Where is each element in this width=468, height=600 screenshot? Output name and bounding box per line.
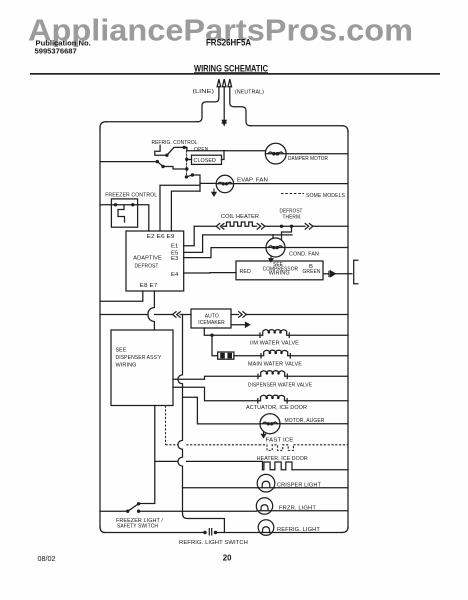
svg-text:CRISPER LIGHT: CRISPER LIGHT (277, 483, 321, 489)
auto icemaker box (191, 309, 231, 328)
svg-text:DEFROST: DEFROST (135, 263, 159, 269)
damper motor (265, 143, 286, 164)
actuator ice door solenoid (261, 395, 285, 401)
I/M water valve rung (204, 328, 348, 337)
svg-text:MOTOR, AUGER: MOTOR, AUGER (285, 418, 325, 424)
svg-text:WIRING: WIRING (269, 271, 290, 277)
wire E1 to coil heater (184, 226, 195, 246)
wire E4 to compressor RED (184, 272, 236, 274)
fast ice heater element (dashed) (259, 445, 293, 451)
svg-text:E2 E6 E9: E2 E6 E9 (147, 234, 175, 240)
vertical feeder V3 from icemaker rung down (178, 315, 224, 533)
svg-text:WIRING SCHEMATIC: WIRING SCHEMATIC (194, 64, 269, 74)
connector chevrons icemaker left (173, 312, 181, 318)
see compressor wiring box (236, 261, 323, 280)
svg-text:THERM.: THERM. (283, 215, 302, 221)
thermal fuse (218, 352, 234, 359)
wire damper motor to right rail (286, 153, 348, 155)
main border bottom edge right of light switch (216, 532, 343, 534)
defrost thermostat tail (282, 226, 292, 239)
dispenser water valve solenoid (261, 371, 285, 377)
wire E8 to left rail (100, 291, 143, 301)
refrig control mechanical linkage (dashed) (186, 147, 188, 177)
svg-text:5995376687: 5995376687 (35, 46, 77, 55)
svg-text:SAFETY SWITCH: SAFETY SWITCH (117, 524, 158, 530)
wire OPEN contact to damper motor (184, 147, 265, 150)
switch blade to evap contact (186, 175, 192, 177)
svg-text:AUTO: AUTO (205, 313, 219, 319)
motor auger rung (183, 397, 349, 424)
svg-text:20: 20 (223, 554, 232, 563)
svg-text:SOME MODELS: SOME MODELS (306, 193, 345, 199)
actuator ice door rung (173, 387, 348, 403)
svg-text:REFRIG. LIGHT SWITCH: REFRIG. LIGHT SWITCH (179, 540, 248, 546)
frzr light lamp (256, 498, 348, 514)
see dispenser assy wiring box (111, 330, 173, 406)
ground arrow cond fan (269, 257, 273, 262)
adaptive defrost control box (126, 231, 184, 291)
evap fan motor (200, 175, 348, 192)
svg-text:(LINE): (LINE) (193, 89, 215, 95)
svg-text:E3: E3 (171, 256, 179, 262)
main border top-right corner (342, 126, 348, 132)
svg-text:FREEZER CONTROL: FREEZER CONTROL (105, 193, 158, 199)
wire rail to freezer control (100, 204, 116, 206)
wire to frzr light (139, 510, 257, 512)
svg-text:ACTUATOR, ICE DOOR: ACTUATOR, ICE DOOR (246, 405, 307, 411)
svg-text:08/02: 08/02 (38, 554, 56, 563)
heater ice door rung (155, 461, 348, 469)
wire lower pole contact (163, 167, 187, 170)
wire freezer control to E2 (133, 205, 149, 231)
junction dots refrig control (156, 146, 194, 179)
svg-text:COIL HEATER: COIL HEATER (221, 214, 259, 220)
wire E9 feed (171, 191, 200, 231)
crisper light lamp (257, 474, 275, 492)
svg-text:WIRING: WIRING (116, 363, 137, 369)
crisper light rung (183, 487, 349, 489)
some models dashed note (281, 193, 304, 195)
wire stub to cond fan top (272, 235, 274, 238)
svg-text:MAIN WATER VALVE: MAIN WATER VALVE (248, 362, 302, 368)
refrig control switch blade lower pole (157, 162, 163, 167)
freezer control box (111, 199, 137, 227)
CLOSED label box (192, 155, 222, 164)
wire rung to refrig control (100, 161, 157, 163)
svg-text:RED: RED (240, 269, 252, 275)
main border left rail (99, 128, 101, 527)
svg-text:ADAPTIVE: ADAPTIVE (133, 255, 162, 261)
fast ice heater dashed feed from dispenser box (166, 406, 349, 451)
ground arrow evap fan (212, 189, 216, 197)
refrig light lamp (258, 520, 274, 536)
wire thermostat to right rail (313, 225, 348, 227)
svg-text:DAMPER MOTOR: DAMPER MOTOR (288, 156, 328, 162)
svg-text:FRS26HF5A: FRS26HF5A (206, 38, 252, 48)
wire E5 to defrost thermostat (184, 235, 292, 253)
svg-text:DISPENSER ASS'Y: DISPENSER ASS'Y (116, 355, 162, 361)
wire freezer control contacts (116, 204, 133, 206)
I/M water valve solenoid (263, 330, 287, 336)
svg-text:COND. FAN: COND. FAN (289, 251, 319, 257)
power plug right prong (NEUTRAL) (230, 87, 251, 126)
condenser fan motor (266, 238, 348, 257)
power plug left prong (LINE) (198, 87, 219, 122)
wire icemaker to right rail with chevrons (231, 314, 239, 316)
wire E3 to cond fan (184, 248, 266, 258)
coil heater rung (194, 222, 348, 239)
svg-text:SEE: SEE (116, 348, 127, 354)
main border bottom edge left of light switch (105, 532, 205, 534)
freezer light safety switch rung (100, 504, 256, 511)
wire GREEN output with connector (323, 271, 353, 277)
wire E7 down with hop over icemaker rung (148, 291, 154, 330)
svg-text:I/M WATER VALVE: I/M WATER VALVE (250, 340, 299, 346)
main water valve solenoid (264, 350, 288, 356)
dispenser water valve rung (173, 374, 348, 379)
main border top edge left of plug (106, 121, 198, 123)
svg-text:(NEUTRAL): (NEUTRAL) (235, 90, 264, 96)
main border top-left corner (100, 122, 106, 128)
main border bottom-left corner (100, 527, 105, 533)
svg-text:OPEN: OPEN (194, 147, 209, 153)
ground arrow auger motor (261, 432, 265, 438)
wire evap pole to fan (192, 175, 200, 191)
svg-text:GREEN: GREEN (303, 269, 321, 275)
vertical V1 dispenser box to safety switch (139, 406, 155, 504)
connector chevrons right (257, 224, 265, 230)
wire CLOSED contact to label box (187, 159, 192, 161)
svg-text:HEATER, ICE DOOR: HEATER, ICE DOOR (257, 456, 308, 462)
wire E6 feed (160, 185, 200, 231)
main border bottom-right corner (342, 527, 348, 533)
external connector bracket (354, 260, 359, 284)
refrig control switch blade common to OPEN (167, 147, 184, 155)
svg-text:E1: E1 (171, 244, 178, 250)
svg-text:REFRIG. CONTROL: REFRIG. CONTROL (152, 140, 199, 146)
main border right rail (347, 132, 349, 527)
svg-text:REFRIG. LIGHT: REFRIG. LIGHT (277, 527, 320, 533)
svg-text:FAST ICE: FAST ICE (266, 438, 294, 444)
svg-text:ICEMAKER: ICEMAKER (198, 320, 225, 326)
refrig light switch (203, 531, 217, 534)
svg-text:FRZR. LIGHT: FRZR. LIGHT (279, 506, 316, 512)
connector chevrons left (216, 224, 224, 230)
main water valve rung with thermal fuse (212, 335, 348, 358)
svg-text:CLOSED: CLOSED (194, 158, 217, 164)
wire CLOSED box to damper feed (222, 151, 225, 160)
icemaker aux stub with arrow (231, 324, 246, 326)
auger motor (260, 414, 280, 434)
freezer control sensing element zigzag (118, 205, 125, 222)
fast ice wire to rail (dashed) (293, 444, 348, 446)
wire to defrost thermostat (265, 225, 305, 227)
auto icemaker rung from rail (100, 312, 191, 318)
power plug middle prong (ground) (223, 87, 225, 121)
svg-text:DISPENSER WATER VALVE: DISPENSER WATER VALVE (248, 383, 312, 389)
svg-text:E4: E4 (171, 272, 179, 278)
main border top edge right of plug (251, 125, 343, 127)
coil heater element (227, 222, 257, 226)
connector chevrons to rail (305, 224, 313, 230)
heater ice door element (263, 462, 293, 470)
svg-text:E8 E7: E8 E7 (140, 283, 158, 289)
header rule (30, 73, 440, 75)
svg-text:EVAP. FAN: EVAP. FAN (237, 177, 268, 183)
refrig control common step lead (155, 145, 167, 155)
switch blade (128, 504, 139, 511)
